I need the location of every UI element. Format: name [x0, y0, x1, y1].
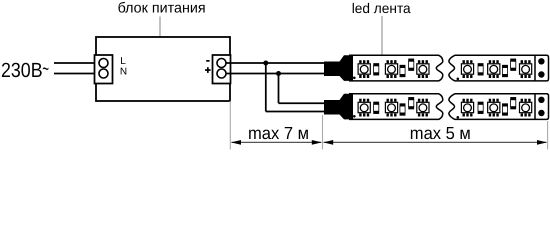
- svg-text:N: N: [120, 66, 127, 77]
- svg-text:блок питания: блок питания: [118, 1, 206, 17]
- svg-text:L: L: [120, 56, 126, 67]
- svg-text:led лента: led лента: [352, 0, 411, 16]
- svg-text:~: ~: [42, 57, 49, 80]
- svg-text:230В: 230В: [1, 59, 43, 82]
- svg-text:max 7 м: max 7 м: [248, 123, 309, 143]
- svg-text:max 5 м: max 5 м: [410, 123, 471, 143]
